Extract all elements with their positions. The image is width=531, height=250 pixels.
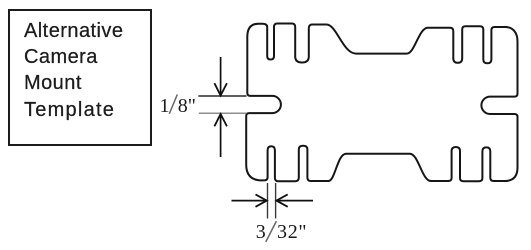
- label 3/32" : fraction slash: [266, 221, 277, 242]
- title text: Alternative Camera Mount Template: [24, 18, 123, 122]
- svg-text:32": 32": [277, 221, 307, 243]
- svg-text:1: 1: [160, 95, 170, 117]
- extension line, bottom slot right edge: [275, 183, 277, 219]
- title text box: [8, 9, 152, 146]
- dimension arrow up (1/8"): [220, 114, 222, 157]
- extension line, left slot top edge: [198, 95, 246, 97]
- extension line, left slot bottom edge: [199, 112, 247, 114]
- svg-text:3: 3: [256, 221, 266, 243]
- dimension arrow right-pointing (3/32"): [232, 200, 267, 202]
- extension line, bottom slot left edge: [267, 183, 269, 219]
- template outline: [246, 24, 517, 182]
- dimension arrow left-pointing (3/32"): [276, 200, 313, 202]
- label 1/8" : fraction slash: [169, 95, 177, 114]
- dimension arrow down (1/8"): [220, 57, 222, 96]
- svg-text:8": 8": [178, 95, 196, 117]
